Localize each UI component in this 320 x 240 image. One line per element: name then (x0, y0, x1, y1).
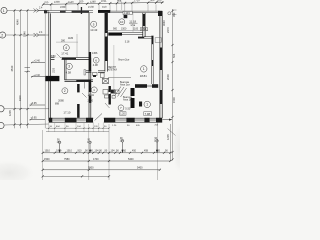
svg-text:1: 1 (146, 103, 148, 107)
room 1 lower (144, 101, 150, 107)
svg-text:13.43: 13.43 (90, 28, 97, 32)
svg-text:908: 908 (117, 0, 122, 3)
fixture rect right (155, 38, 161, 43)
svg-text:910: 910 (122, 150, 127, 153)
svg-text:1100: 1100 (18, 95, 22, 101)
svg-text:1710: 1710 (134, 0, 140, 2)
svg-text:5400: 5400 (128, 158, 134, 161)
top-left wall band (44, 10, 93, 12)
boxed tag (123, 11, 132, 14)
diagonal leader (168, 129, 176, 136)
extension drop lines (51, 2, 156, 12)
interior horizontal wall H1 (under room 4) (51, 58, 91, 60)
svg-text:1010: 1010 (45, 150, 51, 153)
svg-text:495: 495 (156, 150, 161, 153)
svg-text:Лестн 2шт: Лестн 2шт (118, 59, 130, 62)
inner dim line above stair wall (106, 30, 148, 32)
svg-text:500: 500 (150, 0, 155, 2)
bottom wall door gap (93, 118, 103, 123)
svg-text:1393: 1393 (124, 11, 130, 15)
room3 left wall (65, 59, 66, 80)
dark stack column (77, 104, 80, 118)
axis line A1 (7, 10, 49, 12)
partition above stack (77, 84, 80, 92)
level mark flag 3 (31, 61, 45, 63)
svg-text:700: 700 (44, 0, 49, 4)
svg-text:1394: 1394 (141, 28, 147, 31)
short stubs under wall (49, 123, 103, 133)
top-mid heavy pier (98, 10, 110, 13)
door leaf (57, 54, 62, 59)
sub dim ticks (48, 127, 110, 129)
svg-text:900: 900 (113, 28, 118, 31)
sub dim line A (46, 127, 109, 129)
left rotated dim texts (8, 19, 27, 116)
svg-text:1010: 1010 (56, 150, 62, 153)
right edge scan shading (172, 122, 188, 174)
bottom wall piers (49, 118, 53, 123)
svg-text:910: 910 (78, 150, 83, 153)
arrow leader bottom right (163, 119, 173, 121)
level mark flag 6 (30, 118, 46, 120)
svg-text:920: 920 (79, 0, 84, 3)
thick wall V4 (131, 88, 135, 96)
wall down from landing (152, 36, 154, 84)
room 4 (63, 45, 69, 51)
room small circle center (91, 87, 97, 93)
svg-text:898: 898 (55, 103, 60, 106)
axis line A3 (4, 108, 49, 110)
wall jog to stair landing (138, 37, 144, 39)
pier (60, 11, 66, 13)
texts below dim line (60, 4, 107, 9)
svg-text:КЛЕТКА: КЛЕТКА (108, 69, 117, 72)
svg-text:1300: 1300 (54, 0, 60, 4)
interior horizontal wall H3 (center) (86, 71, 105, 73)
svg-text:+0.95: +0.95 (31, 102, 38, 105)
svg-text:блок 2шт: блок 2шт (120, 84, 131, 87)
svg-text:2080: 2080 (58, 98, 64, 102)
svg-text:18.81: 18.81 (140, 74, 147, 78)
room 10 (119, 19, 125, 25)
paper background (0, 0, 180, 180)
svg-text:2280: 2280 (60, 5, 66, 9)
chain ticks (42, 152, 172, 154)
svg-text:1205: 1205 (8, 110, 12, 116)
left dim ticks (13, 9, 28, 125)
wall H4 right apartment divider (135, 84, 147, 88)
room 2 (62, 88, 68, 94)
interior faint verticals (113, 45, 115, 96)
svg-text:450: 450 (132, 150, 137, 153)
room 3 (66, 63, 72, 69)
dim line 3 (43, 169, 161, 171)
pier below band (124, 15, 128, 18)
level mark flag 4 (31, 76, 45, 78)
dark L wall block (46, 76, 60, 81)
level mark flag 2 (34, 33, 46, 37)
chain dim line (43, 152, 171, 154)
level mark flag 1 (34, 9, 46, 13)
chain texts (45, 150, 169, 153)
interior vertical wall V1 (stairwell left) (105, 13, 108, 72)
boxed tag stair (140, 28, 147, 31)
top-right window band (110, 10, 160, 12)
kitchen wall V3 (109, 86, 111, 92)
svg-text:1520: 1520 (54, 67, 56, 73)
svg-text:1205: 1205 (166, 134, 170, 140)
kitchen fixtures (103, 90, 119, 95)
svg-text:1.20: 1.20 (120, 113, 125, 116)
svg-text:4540: 4540 (10, 65, 14, 71)
room 6 (93, 57, 99, 63)
svg-text:2080: 2080 (50, 55, 56, 58)
bottom outer wall double line (49, 118, 162, 122)
svg-text:+1.41: +1.41 (88, 94, 95, 97)
interior horizontal wall H2 (65, 80, 94, 82)
svg-text:5900: 5900 (88, 167, 94, 170)
axis line A2 (6, 34, 49, 36)
svg-text:+2.40: +2.40 (34, 60, 41, 63)
svg-text:1530: 1530 (88, 5, 94, 9)
svg-text:1700: 1700 (93, 158, 99, 161)
svg-text:4: 4 (65, 46, 67, 50)
svg-text:4540: 4540 (16, 19, 20, 25)
entry door leaf (95, 114, 102, 121)
H1 door gap (55, 57, 62, 60)
interior vertical wall V5 (143, 13, 145, 37)
svg-text:1: 1 (3, 9, 5, 13)
room 1 upper (141, 66, 147, 72)
sub dim line B (46, 131, 109, 133)
axis bubble A4 (0, 122, 4, 128)
svg-text:17.41: 17.41 (61, 51, 68, 55)
svg-text:3040: 3040 (162, 20, 166, 26)
room 5 (91, 21, 97, 27)
pier (44, 10, 47, 13)
dim line 4 partial (43, 175, 109, 177)
svg-text:1180: 1180 (68, 37, 74, 40)
stair landing line (108, 77, 131, 79)
interior vertical wall V2 (89, 13, 91, 118)
svg-text:1011: 1011 (101, 0, 107, 3)
svg-text:910: 910 (102, 5, 107, 9)
dim texts above (44, 0, 162, 4)
stair treads (115, 87, 127, 98)
svg-text:1010: 1010 (67, 150, 73, 153)
axis bubble A2 (0, 32, 6, 38)
right wall dark pier (160, 48, 163, 71)
svg-text:1366: 1366 (92, 52, 98, 55)
svg-text:4.58: 4.58 (66, 71, 72, 75)
interior horizontal wall mid (stairwell top) (108, 33, 122, 36)
svg-text:17.10: 17.10 (63, 111, 70, 115)
drain mark symbols (60, 142, 157, 153)
svg-text:5400: 5400 (137, 167, 143, 170)
axis line A4 (4, 124, 49, 125)
level mark flag 5 (30, 104, 46, 106)
svg-text:1: 1 (143, 67, 145, 71)
room 7 (118, 105, 124, 111)
misc small texts in plan (50, 28, 139, 106)
svg-text:1500: 1500 (121, 28, 127, 31)
right wall dark pier 2 (160, 90, 163, 104)
vent shaft with X (103, 78, 109, 83)
stub wall above top band (81, 7, 82, 14)
right outer wall (160, 11, 162, 120)
svg-text:2: 2 (64, 89, 66, 93)
svg-text:1280: 1280 (90, 0, 96, 4)
svg-text:2470: 2470 (166, 27, 170, 33)
svg-text:10: 10 (120, 20, 124, 24)
small break marks (25, 67, 31, 72)
svg-text:1540: 1540 (23, 31, 27, 37)
svg-text:390: 390 (172, 12, 176, 17)
svg-text:блок 2шт: блок 2шт (123, 99, 134, 102)
pier (72, 11, 89, 13)
dim line 2 (43, 160, 171, 162)
svg-text:160: 160 (157, 0, 162, 3)
corner scan shading (0, 160, 35, 186)
top-right corner (158, 11, 162, 16)
svg-text:7580: 7580 (64, 158, 70, 161)
kitchen door leaf (105, 103, 110, 108)
small dim texts directly under wall (50, 125, 159, 129)
svg-text:+2.40: +2.40 (34, 74, 41, 77)
svg-text:2: 2 (1, 33, 3, 37)
dim line (43, 2, 163, 4)
door leaf near corridor (82, 93, 87, 98)
bottom windows (thin sill lines) (52, 120, 156, 121)
axis bubble A1 (1, 7, 7, 13)
svg-text:104: 104 (111, 150, 116, 153)
boxed tag near entry (120, 112, 127, 115)
svg-text:7.98: 7.98 (145, 112, 151, 116)
svg-text:1500: 1500 (44, 158, 50, 161)
H1 dark pier over room3 (62, 58, 76, 60)
wall-face extension line (44, 10, 46, 129)
svg-text:4.08: 4.08 (93, 63, 99, 67)
svg-text:2000: 2000 (166, 74, 170, 80)
left outer wall (49, 12, 51, 121)
left vertical dimension lines (15, 10, 28, 129)
svg-text:504: 504 (172, 53, 176, 58)
svg-text:2000: 2000 (88, 100, 94, 103)
svg-text:3.18: 3.18 (125, 40, 130, 43)
svg-text:458: 458 (144, 150, 149, 153)
door leaf right rooms (84, 70, 85, 76)
axis bubble A3 (0, 106, 4, 112)
svg-text:3: 3 (68, 65, 70, 69)
svg-text:+0.95: +0.95 (31, 117, 38, 120)
bath fixtures (93, 73, 105, 78)
top-right corner symbols (168, 12, 171, 15)
svg-text:1140: 1140 (68, 0, 74, 4)
svg-text:1500: 1500 (172, 97, 176, 103)
svg-text:5.50: 5.50 (125, 107, 131, 111)
svg-text:1100: 1100 (133, 28, 139, 31)
main vertical extension lines (43, 123, 158, 181)
ticks (42, 1, 163, 5)
